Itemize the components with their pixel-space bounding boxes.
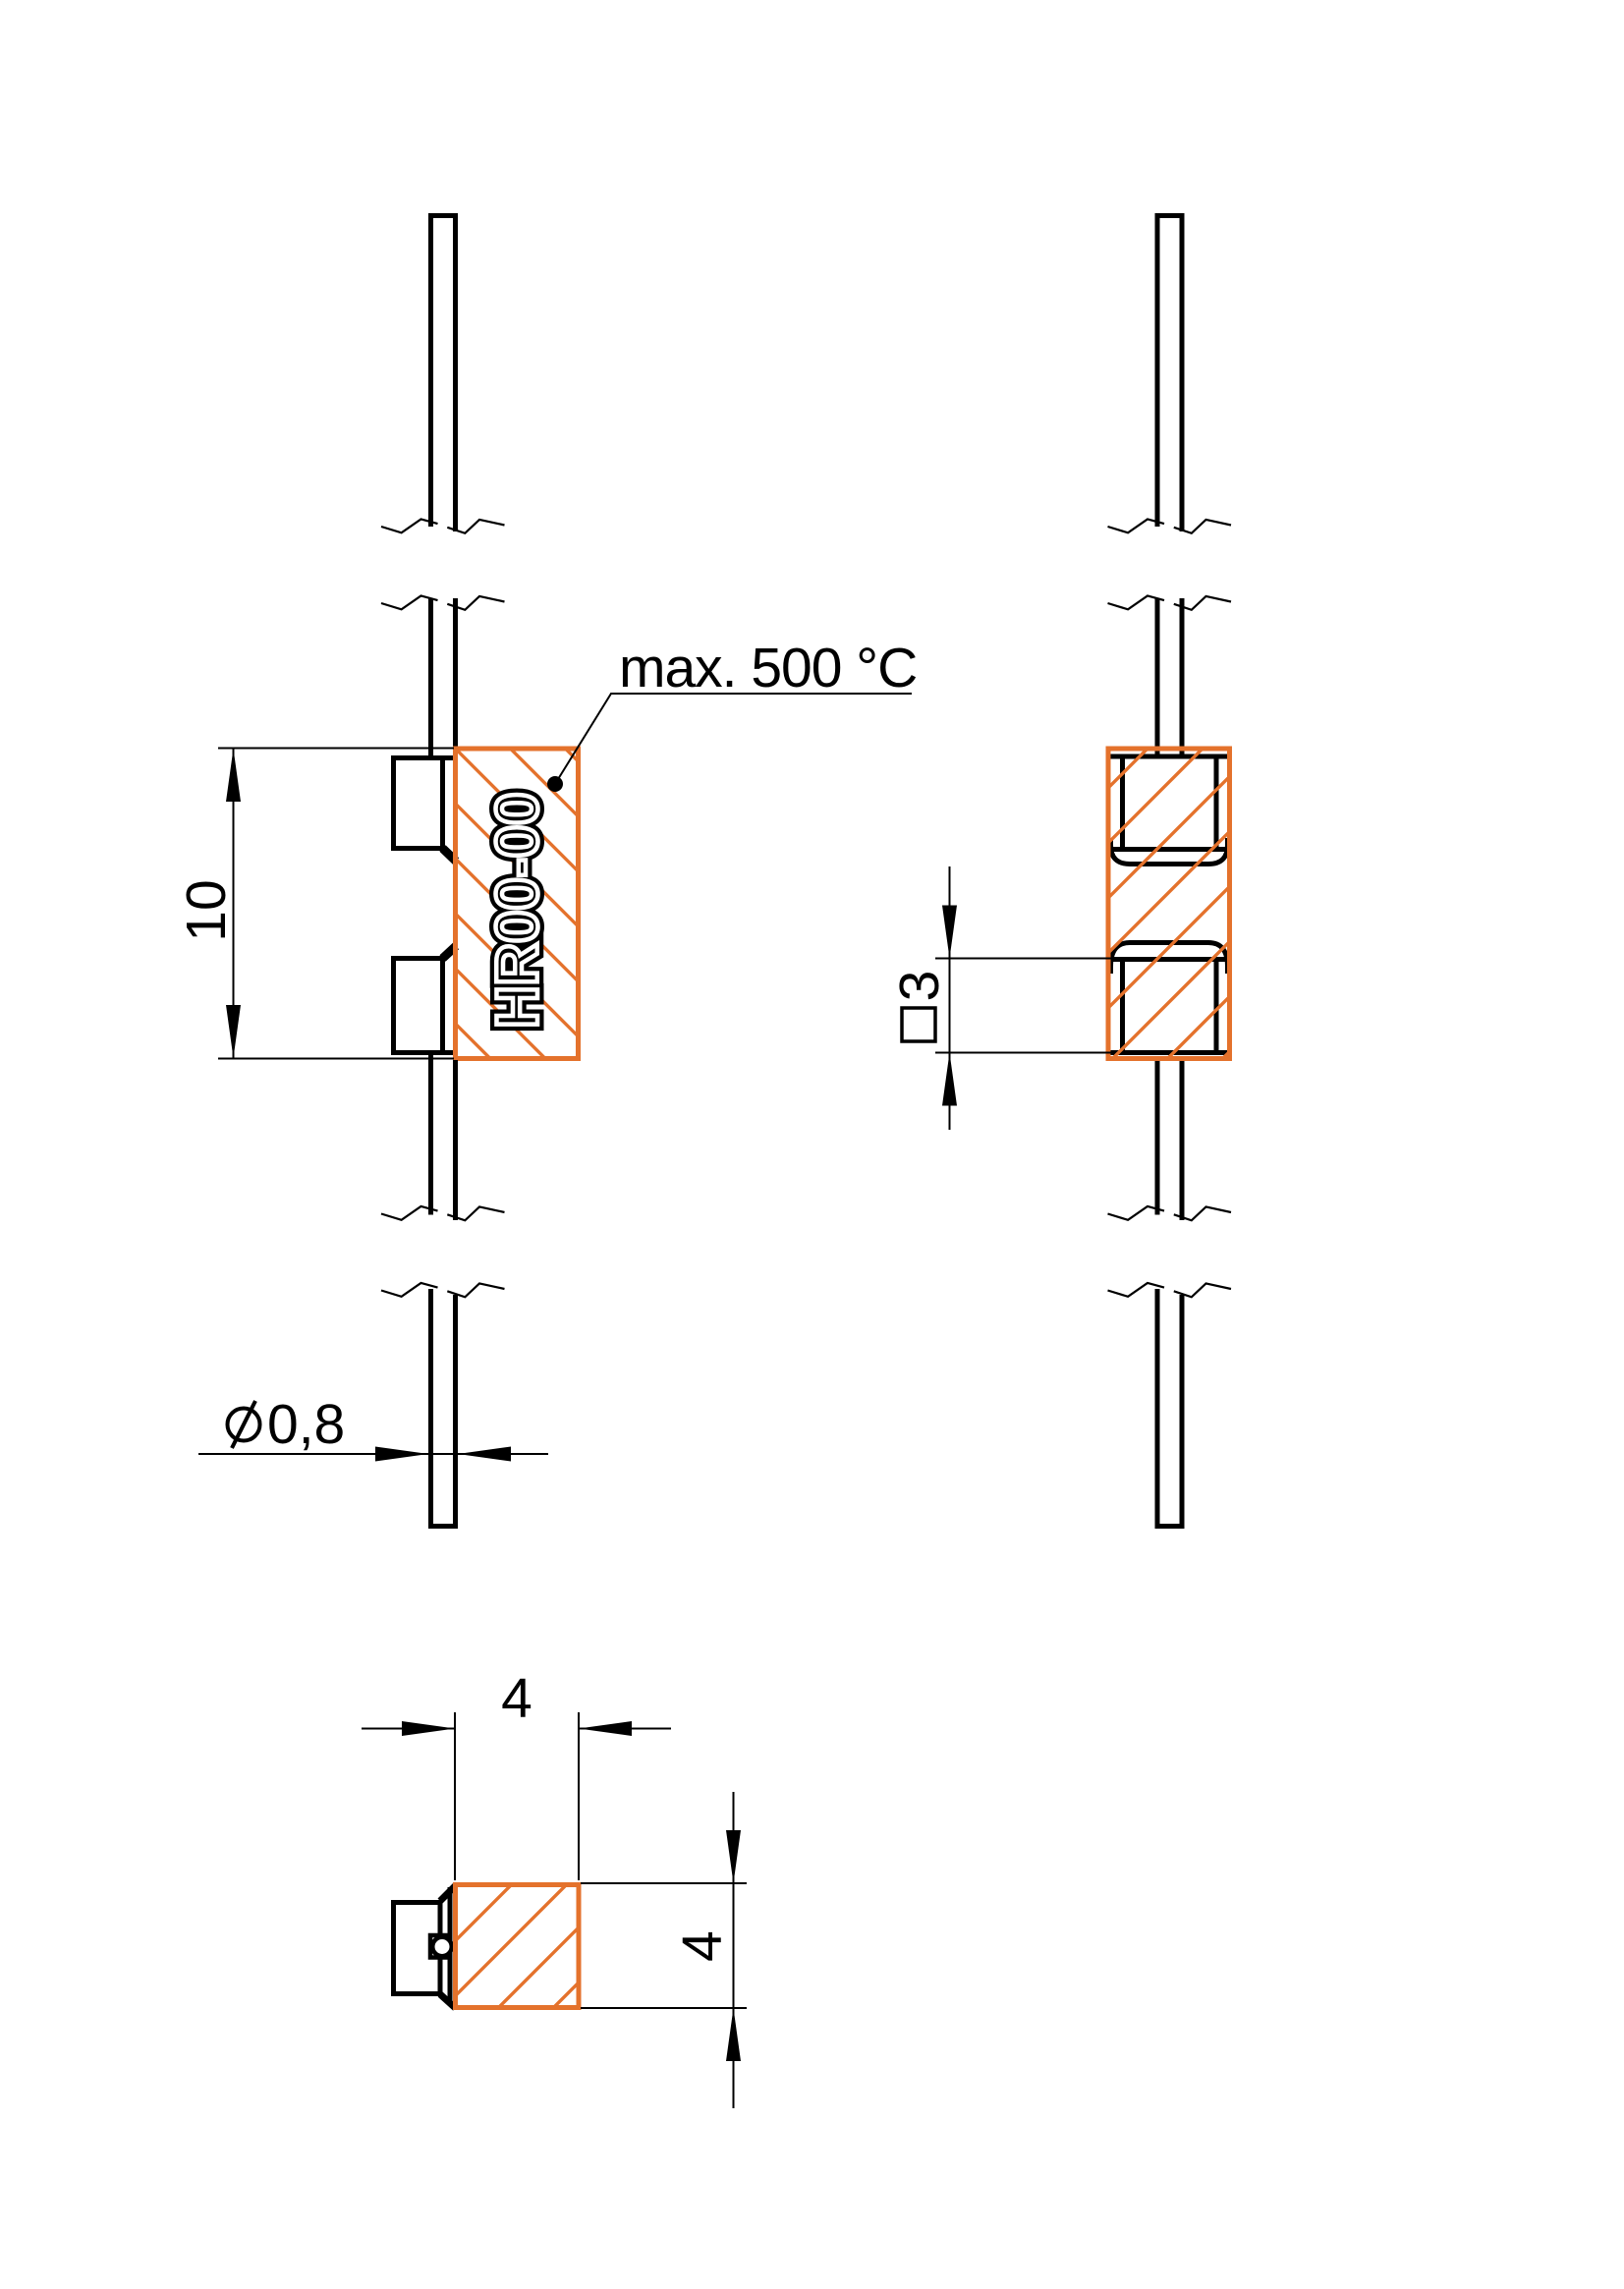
dimension 4 width: dimension line segments (362, 1728, 671, 1730)
end view: crimp indent bracket (430, 1935, 448, 1958)
wire W2 break 2 lower zigzag (1108, 1283, 1165, 1297)
end view: chamfer bottom (440, 1994, 456, 2008)
marking text HR00-00 (engraved, rotated) (484, 792, 550, 1028)
svg-text:HR00-00: HR00-00 (484, 792, 550, 1028)
body B1 outline (left view, heater body) (456, 749, 579, 1059)
body B3 outline (end view) (456, 1885, 580, 2008)
dimension 4 height: dimension line (733, 1792, 735, 2108)
dimension 4 height: arrowheads (726, 1830, 741, 1883)
dimension 0,8: diameter symbol (228, 1409, 260, 1441)
end view: chamfer top (440, 1886, 456, 1902)
wire W1 break 1 lower zigzag (381, 596, 438, 610)
dimension 4 width: extension lines (455, 1712, 579, 1880)
body B2 outline (right view) (1108, 749, 1230, 1059)
ferrule F3 faces (right view top) (1111, 754, 1228, 852)
wire W1 lower segment below component (431, 1053, 456, 1221)
end view: crimp ferrule rectangle (394, 1903, 441, 1994)
wire W2 break 2 upper zigzag (1108, 1206, 1165, 1220)
crimp ferrule F1 top (left view) (391, 755, 453, 851)
dimension 4 width: arrowheads (402, 1721, 455, 1736)
wire W1 mid segment into component (431, 598, 456, 758)
body B1 hatch (left view, \ direction) (295, 478, 1277, 1846)
leader line for max temp note (555, 694, 912, 784)
svg-text:10: 10 (175, 879, 238, 941)
dimension square-3: value text (888, 971, 951, 1002)
ferrule F4 rounded lip (right view bottom) (1111, 943, 1228, 975)
dimension 10: dimension line (233, 749, 235, 1058)
dimension square-3: square symbol (902, 1008, 935, 1041)
dimension 10: arrowheads (226, 749, 241, 802)
wire W2 lower segment below component (1157, 1061, 1182, 1220)
svg-text:4: 4 (501, 1667, 532, 1730)
svg-text:4: 4 (671, 1930, 734, 1962)
dimension 10: extension lines (218, 749, 454, 1059)
dimension square-3: dimension line (949, 866, 951, 1130)
dimension 0,8: arrowheads (375, 1447, 428, 1462)
wire W2 break 1 upper zigzag (1108, 520, 1165, 533)
dimension square-3: arrowheads (942, 906, 957, 959)
wire W2 break 1 lower zigzag (1108, 596, 1165, 610)
ferrule F2 chamfer to body (443, 946, 457, 959)
svg-text:max. 500 °C: max. 500 °C (619, 637, 917, 699)
svg-text:3: 3 (888, 971, 951, 1002)
wire W1 break 1 upper zigzag (381, 520, 438, 533)
leader: attachment dot on body (547, 776, 563, 792)
dimension 4 height: extension lines (581, 1883, 747, 2008)
wire W2 mid segment into component (1157, 598, 1182, 756)
dimension square-3: extension lines (935, 959, 1111, 1053)
dimension 4 height: value text (671, 1930, 734, 1962)
ferrule F3 rounded lip (1111, 838, 1228, 865)
end view: body edge line (448, 1887, 453, 2005)
wire W1 bottom segment with end cap (431, 1289, 456, 1527)
ferrule F1 chamfer to body (443, 849, 457, 862)
wire W1 upper segment (left view lead above first break) (431, 216, 456, 532)
crimp ferrule F2 bottom (left view) (391, 956, 453, 1055)
wire W1 break 2 lower zigzag (381, 1283, 438, 1297)
wire W2 bottom segment with end cap (1157, 1289, 1182, 1527)
ferrule F4 faces (1111, 958, 1228, 1055)
wire W1 break 2 upper zigzag (381, 1206, 438, 1220)
dimension 10: value text (175, 879, 238, 941)
dimension 0,8: dimension line (198, 1453, 548, 1455)
svg-text:0,8: 0,8 (267, 1393, 345, 1456)
body B3 hatch (end view, / direction) (137, 1670, 891, 2260)
wire W2 upper segment (right view) (1157, 216, 1182, 532)
end view: wire cross-section circle (432, 1937, 452, 1957)
